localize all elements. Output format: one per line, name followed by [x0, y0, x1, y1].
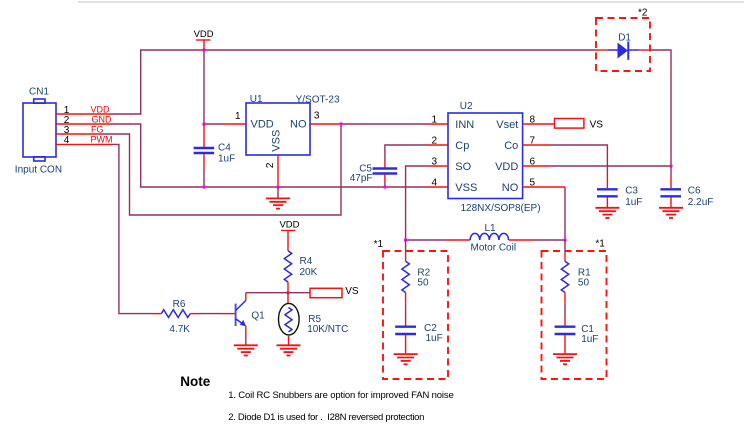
node U1 VSS / rail junction [276, 185, 279, 188]
svg-text:20K: 20K [300, 267, 318, 278]
svg-text:1uF: 1uF [218, 154, 235, 165]
svg-text:VDD: VDD [279, 220, 299, 231]
ground below R5 [277, 345, 301, 355]
svg-text:50: 50 [578, 277, 590, 288]
svg-text:VSS: VSS [455, 182, 477, 194]
wire U1 NO to U2 INN [310, 123, 448, 125]
label C4 value [218, 143, 235, 165]
node motor line left junction [404, 238, 407, 241]
svg-text:NO: NO [502, 182, 519, 194]
capacitor C1 [555, 304, 576, 354]
svg-text:VDD: VDD [91, 105, 111, 115]
svg-text:CN1: CN1 [29, 87, 49, 98]
svg-text:Motor Coil: Motor Coil [471, 243, 517, 254]
label C3 value [625, 186, 642, 209]
wire CN1 pin3 FG [56, 124, 341, 215]
dashed option box *1 (right snubber) [542, 251, 607, 379]
svg-text:PWM: PWM [91, 135, 113, 145]
net flag VS (at Q1) [310, 286, 359, 298]
ground below C1 [553, 354, 577, 364]
svg-text:U2: U2 [460, 101, 473, 112]
svg-text:10K/NTC: 10K/NTC [307, 324, 348, 335]
wire U2 pin6 VDD to C6 node [523, 165, 671, 167]
wire VDD tap to U1/C4 [203, 50, 205, 124]
label R6 value [169, 299, 190, 335]
label C1 value [581, 324, 598, 345]
svg-text:*2: *2 [638, 8, 648, 19]
svg-text:Input CON: Input CON [15, 165, 62, 176]
svg-text:NO: NO [290, 119, 307, 131]
resistor R6 [152, 310, 235, 318]
svg-text:VS: VS [590, 120, 604, 131]
label R2 value [417, 268, 430, 289]
svg-text:*1: *1 [374, 239, 384, 250]
wire CN1 pin2 GND [56, 124, 449, 187]
svg-text:*1: *1 [595, 239, 605, 250]
wire U2 pin8 Vset to VS [523, 123, 555, 125]
svg-text:Y/SOT-23: Y/SOT-23 [296, 95, 340, 106]
svg-text:GND: GND [92, 115, 113, 125]
node C4 / GND rail junction [202, 185, 205, 188]
svg-text:R6: R6 [173, 299, 186, 310]
svg-text:D1: D1 [618, 33, 631, 44]
thermistor R5 [279, 293, 300, 345]
svg-text:Co: Co [504, 140, 518, 152]
wire VDD top rail [141, 50, 596, 114]
svg-text:4.7K: 4.7K [169, 324, 190, 335]
wire CN1 pin4 PWM [56, 144, 152, 313]
svg-text:1. Coil RC Snubbers are option: 1. Coil RC Snubbers are option for impro… [228, 390, 453, 401]
wire U2 pin3 SO to motor node [406, 166, 448, 240]
label R1 value [578, 267, 591, 288]
svg-text:2. Diode D1 is used for . I28: 2. Diode D1 is used for . I28N reversed … [228, 412, 424, 423]
diode D1 [596, 42, 650, 60]
node VDD top junction [202, 48, 205, 51]
resistor R1 [561, 240, 568, 304]
ground below U1 [266, 187, 290, 209]
svg-text:4: 4 [431, 178, 437, 189]
op-amp U1 body [246, 103, 310, 155]
svg-text:1uF: 1uF [581, 334, 598, 345]
svg-text:L1: L1 [484, 223, 496, 234]
svg-text:VDD: VDD [194, 29, 214, 40]
wire CN1 pin1 VDD [56, 113, 141, 115]
svg-text:INN: INN [455, 119, 474, 131]
svg-text:Q1: Q1 [251, 311, 265, 322]
capacitor C3 [597, 178, 618, 207]
capacitor C5 [373, 145, 449, 187]
node R4/Q1/R5/VS junction [286, 291, 289, 294]
svg-text:C6: C6 [688, 186, 701, 197]
ground below C2 [394, 354, 418, 364]
svg-text:2.2uF: 2.2uF [688, 197, 714, 208]
svg-text:R4: R4 [300, 256, 313, 267]
node motor line right junction [563, 238, 566, 241]
label C2 value [424, 323, 443, 344]
connector CN1 [23, 99, 56, 161]
node NO/INN/FG junction [339, 122, 342, 125]
svg-text:Vset: Vset [496, 119, 518, 131]
svg-text:128NX/SOP8(EP): 128NX/SOP8(EP) [461, 203, 541, 214]
node U1 pin1 / C4 junction [202, 122, 205, 125]
svg-text:1: 1 [235, 111, 241, 122]
label C5 value [350, 164, 373, 185]
ground below C3 [595, 208, 619, 218]
label R4 value [300, 256, 318, 278]
wire rail after diode to C6 junction [650, 50, 671, 166]
svg-text:Note: Note [180, 374, 210, 389]
net flag VS (at Vset) [555, 119, 604, 131]
svg-text:47pF: 47pF [350, 173, 373, 184]
wire U2 pin7 Co to C3 [523, 145, 608, 178]
svg-text:3: 3 [314, 111, 320, 122]
wire U1 pin2 VSS [277, 155, 279, 187]
svg-text:2: 2 [431, 136, 437, 147]
svg-text:C4: C4 [218, 143, 231, 154]
svg-text:1uF: 1uF [625, 197, 642, 208]
svg-text:2: 2 [265, 162, 276, 168]
label R5 value [307, 314, 348, 335]
power symbol VDD (top) [194, 29, 214, 50]
capacitor C6 [660, 166, 681, 207]
label C6 value [688, 186, 714, 209]
ground below C6 [659, 208, 683, 218]
ground below Q1 [234, 345, 258, 355]
svg-text:Cp: Cp [455, 140, 469, 152]
dashed option box *1 (left snubber) [383, 251, 448, 379]
wire collector line to VS [246, 292, 310, 294]
resistor R4 [284, 251, 291, 293]
capacitor C2 [395, 304, 416, 354]
resistor R2 [402, 240, 409, 304]
svg-text:C3: C3 [625, 186, 638, 197]
power symbol VDD (above R4) [279, 220, 299, 251]
svg-text:VDD: VDD [495, 161, 518, 173]
svg-text:1uF: 1uF [426, 333, 443, 344]
IC U2 body [448, 113, 523, 199]
wire motor coil line [406, 239, 565, 241]
svg-text:VSS: VSS [271, 130, 283, 152]
node C5 / rail junction [383, 185, 386, 188]
capacitor C4 [194, 124, 215, 187]
svg-text:FG: FG [91, 125, 104, 135]
svg-text:50: 50 [417, 278, 429, 289]
svg-text:VDD: VDD [251, 119, 274, 131]
svg-text:VS: VS [345, 286, 359, 297]
top window border line [78, 1, 744, 3]
node VDD / D1 / C6 junction [669, 164, 672, 167]
svg-text:SO: SO [455, 161, 471, 173]
transistor Q1 [236, 293, 246, 345]
inductor L1 [470, 233, 508, 240]
wire U1 pin1 to C4 node [204, 123, 246, 125]
svg-text:1: 1 [431, 115, 437, 126]
svg-text:U1: U1 [250, 94, 263, 105]
dashed option box *2 [596, 18, 650, 71]
wire U2 pin5 NO down to motor line [523, 187, 565, 240]
